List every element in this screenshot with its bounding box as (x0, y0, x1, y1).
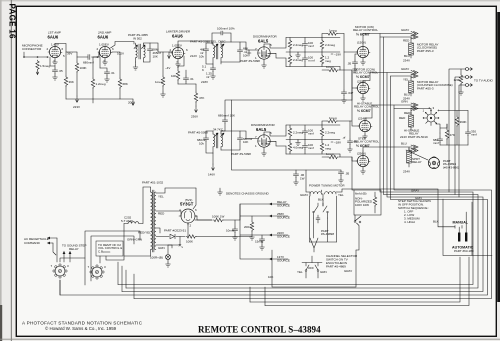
ladder1 mid ground (297, 52, 299, 53)
selenium rectifier diode (156, 236, 185, 238)
bypass cap on AVC line (338, 170, 343, 176)
svg-text:236V: 236V (191, 115, 198, 119)
svg-text:mmf: mmf (308, 44, 314, 48)
connector BLU stepper (410, 109, 412, 116)
svg-text:224V PART #S-5019: 224V PART #S-5019 (400, 135, 428, 139)
wire mid bus m3 (122, 73, 483, 292)
V2 plate wire to T1 (111, 42, 135, 49)
svg-text:5Y3GT: 5Y3GT (180, 202, 194, 207)
right binding bar (497, 12, 500, 302)
svg-text:.05: .05 (345, 172, 350, 176)
svg-text:212V: 212V (190, 54, 197, 58)
V5 outputs to ladder2 (264, 125, 286, 136)
source arrow RELAY SOURCE (272, 203, 288, 205)
T4 secondary top tap YEL (156, 188, 196, 193)
channel selector box (272, 250, 356, 287)
automatic box (443, 199, 492, 256)
svg-text:(224V): (224V) (358, 117, 367, 121)
svg-text:1.2meg: 1.2meg (96, 82, 106, 86)
svg-text:RED: RED (399, 116, 406, 120)
left page edge mark (0, 0, 2, 341)
V3 cathode cap .01 (183, 76, 188, 82)
motor winding right (325, 192, 336, 194)
svg-text:PART #S-5098: PART #S-5098 (188, 131, 208, 135)
wire ladder1 to V5 plate region (340, 70, 352, 100)
svg-text:GRN: GRN (320, 270, 327, 274)
V4 center tap down (263, 59, 265, 63)
svg-text:2.2meg: 2.2meg (293, 131, 303, 135)
120K resistor (460, 69, 462, 74)
svg-text:YEL: YEL (338, 193, 344, 197)
svg-text:BLK: BLK (433, 220, 439, 224)
pot wiper arrow (36, 71, 39, 75)
SPDT relay coil (407, 151, 412, 163)
long wire from socket area right (106, 224, 124, 261)
motor mech fork (310, 238, 318, 252)
svg-text:1meg: 1meg (326, 65, 334, 69)
svg-text:.01: .01 (190, 77, 195, 81)
svg-text:2.2meg: 2.2meg (293, 58, 303, 62)
svg-text:218V: 218V (201, 80, 208, 84)
T4 primary connections (150, 187, 152, 256)
TO REMT OF K2 text box (96, 241, 123, 256)
svg-text:2.2meg: 2.2meg (293, 43, 303, 47)
T1 secondary ground (135, 62, 137, 65)
motor cap (316, 215, 320, 223)
V3 cathode to ground (177, 59, 179, 62)
AC receptacle arrows (50, 237, 57, 239)
AVC return wire (232, 100, 342, 170)
svg-text:.047: .047 (348, 91, 354, 95)
svg-text:PART #S-5098: PART #S-5098 (240, 59, 260, 63)
wire mid bus m1 (118, 34, 473, 285)
V6 grid wire (344, 51, 357, 53)
svg-text:47K: 47K (450, 133, 455, 137)
svg-text:TO TV AUDIO: TO TV AUDIO (474, 79, 494, 83)
V2 grid resistor 1.2meg (93, 52, 99, 78)
screen resistor 39K (65, 52, 67, 76)
stepper circuit box wires (436, 111, 468, 146)
V3 load 47K (195, 84, 197, 92)
svg-text:COMMAND: COMMAND (24, 241, 41, 245)
ladder1 R 1.2meg right bottom (320, 55, 323, 65)
svg-text:(256V): (256V) (357, 152, 366, 156)
200K resistor supply (251, 216, 253, 221)
ladder2 R 4.7meg bottom (288, 142, 291, 152)
svg-text:100K: 100K (186, 240, 193, 244)
T2 left cap 680mmf (206, 43, 213, 47)
svg-text:(#7): (#7) (265, 54, 270, 58)
V7 grid wire (352, 70, 357, 100)
V8 grid wire (350, 100, 359, 126)
T3 tuning arrows (215, 133, 225, 137)
svg-text:PART #S-4869: PART #S-4869 (326, 265, 346, 269)
AC wires (53, 238, 57, 262)
svg-text:15mfd: 15mfd (255, 240, 264, 244)
svg-text:6mfd (B): 6mfd (B) (355, 192, 367, 196)
390K resistor (456, 111, 458, 117)
svg-text:PART #S-5098: PART #S-5098 (231, 152, 251, 156)
DENOTES CHASSIS GROUND legend (218, 190, 223, 195)
V8 cathode (364, 132, 366, 134)
svg-text:½ 6CM7: ½ 6CM7 (357, 109, 371, 113)
V3 plate to T2 (178, 41, 212, 45)
svg-text:SOURCE: SOURCE (277, 204, 290, 208)
B+ output rail with 100K 1W (195, 219, 212, 221)
svg-text:4.0meg: 4.0meg (293, 146, 303, 150)
svg-text:–19V: –19V (334, 53, 341, 57)
svg-text:47K: 47K (199, 96, 204, 100)
svg-text:SWITCH SEQUENCE :: SWITCH SEQUENCE : (398, 206, 429, 210)
svg-text:2.2meg: 2.2meg (325, 131, 335, 135)
svg-text:(#S-43-890): (#S-43-890) (443, 165, 459, 169)
V9 cathode (362, 167, 364, 169)
svg-text:IN 502: IN 502 (133, 37, 142, 41)
svg-text:K: K (202, 68, 204, 72)
svg-text:100R+(B): 100R+(B) (150, 256, 163, 260)
svg-text:mmf: mmf (433, 141, 439, 145)
svg-text:(#7): (#7) (265, 142, 270, 146)
svg-text:SEL. DISC: SEL. DISC (211, 40, 226, 44)
svg-text:YEL: YEL (158, 195, 164, 199)
svg-text:68K: 68K (123, 82, 128, 86)
1meg bottom wire ladder2 (322, 154, 352, 157)
volume pot 1.5meg (36, 60, 39, 70)
motor relay CCW coil (409, 81, 414, 93)
svg-text:RELAY: RELAY (412, 160, 422, 164)
svg-text:10K: 10K (153, 55, 158, 59)
svg-text:6AL5: 6AL5 (256, 127, 267, 132)
connector GRN (411, 103, 418, 107)
B+ distribution (240, 204, 269, 220)
V7 cathode ground (362, 94, 364, 96)
TO TV AUDIO jacks (466, 68, 473, 71)
page fold line (10, 0, 12, 341)
X node (179, 237, 181, 246)
svg-text:100mmf 10%: 100mmf 10% (217, 27, 235, 31)
hi-stable relay coil (409, 115, 414, 127)
svg-text:CONNECTOR: CONNECTOR (22, 47, 42, 51)
switch below box (355, 215, 361, 221)
plate load 100K (75, 62, 78, 72)
svg-text:1meg: 1meg (329, 116, 337, 120)
bottom page rule (0, 338, 500, 340)
svg-text:SOURCE: SOURCE (277, 216, 290, 220)
svg-text:146V: 146V (208, 173, 215, 177)
bottom bus extra lines (250, 257, 460, 302)
svg-text:BLU: BLU (401, 142, 407, 146)
connector BLK to SPDT (363, 147, 412, 151)
svg-text:680mmf: 680mmf (83, 61, 94, 65)
svg-text:GRAY: GRAY (401, 67, 409, 71)
socket2 feed wires (60, 252, 110, 263)
svg-text:GRAY: GRAY (300, 193, 308, 197)
automatic plug blades (458, 233, 460, 242)
svg-text:1W: 1W (300, 177, 305, 181)
stepper rotary switch (423, 106, 440, 126)
GRN tap ground (171, 245, 173, 248)
connector pair GRAY second (411, 71, 418, 75)
source arrow 137V SOURCE (272, 258, 288, 260)
motor winding left (310, 192, 321, 194)
connector pair GRAY top (411, 32, 418, 36)
svg-text:6AU6: 6AU6 (98, 35, 109, 40)
wire mid bus m5 (134, 105, 492, 299)
bottom bus left verticals (60, 262, 265, 306)
svg-text:.uf: .uf (342, 136, 346, 140)
pilot lamp (167, 245, 169, 255)
socket S2 (88, 265, 107, 279)
ladder1 R 2.2meg right top (320, 40, 323, 50)
tube V5 6AL5 (258, 135, 270, 147)
V1 cathode bypass cap .05 (49, 57, 51, 66)
V8 plate wire right (365, 105, 412, 120)
svg-text:YEL: YEL (297, 270, 303, 274)
svg-text:–18V: –18V (334, 141, 341, 145)
V2 cathode cap .01 (99, 57, 101, 68)
svg-text:100V 10W: 100V 10W (355, 203, 369, 207)
5Y3 output down (187, 223, 189, 237)
relay armature lever to motor (406, 150, 428, 160)
svg-text:SOURCE: SOURCE (277, 235, 290, 239)
primary bottom wire (124, 255, 151, 257)
svg-text:234V: 234V (403, 59, 410, 63)
ladder2 R 2.2meg right top (320, 127, 323, 137)
cap .047 to ground right (343, 34, 345, 91)
svg-text:100K 1W: 100K 1W (212, 215, 225, 219)
V9 plate wire (362, 151, 364, 155)
svg-text:(150V): (150V) (357, 41, 366, 45)
T3 bottom to supply arrow (212, 153, 214, 164)
svg-text:½ 6CM7: ½ 6CM7 (356, 75, 370, 79)
svg-text:1.5meg: 1.5meg (40, 64, 50, 68)
47K resistor (446, 124, 448, 129)
svg-text:OFF: OFF (308, 266, 314, 270)
motor terminal wires (321, 194, 323, 206)
6mfd cap box (354, 190, 381, 215)
node dot input (37, 56, 39, 58)
svg-text:GRN: GRN (401, 100, 408, 104)
svg-text:680mmf 10K: 680mmf 10K (218, 114, 235, 118)
1meg resistor top right h (327, 32, 337, 35)
svg-text:.05: .05 (59, 69, 64, 73)
manual wires down (443, 225, 462, 228)
svg-text:.01: .01 (111, 71, 116, 75)
svg-text:1meg: 1meg (155, 80, 163, 84)
T3 left cap 680mmf (206, 131, 213, 136)
15mfd cap supply (261, 235, 263, 237)
svg-text:PART #S5-3: PART #S5-3 (417, 86, 434, 90)
svg-text:BLK: BLK (318, 198, 324, 202)
ladder1 rails (286, 38, 340, 67)
transformer T1 (136, 45, 138, 58)
svg-text:39K: 39K (69, 80, 74, 84)
T4 tap GRN (156, 244, 172, 246)
T4 center tap RED/YEL (156, 228, 160, 233)
wire T1 to V3 grid (150, 43, 172, 52)
V3 grid resistor 1meg (162, 52, 164, 76)
svg-text:234V: 234V (403, 170, 410, 174)
motor internal switch contacts (314, 203, 319, 218)
svg-text:10K: 10K (171, 74, 176, 78)
svg-text:1.05EV: 1.05EV (99, 43, 109, 47)
V7 plate to connector (363, 73, 412, 83)
svg-text:6AU6: 6AU6 (172, 34, 183, 39)
ladder2 R 1.2meg right bottom (320, 142, 323, 152)
T3 right cap 680mmf (221, 131, 240, 136)
tube V1 6AU6 (48, 46, 62, 57)
tube V2 6AU6 (98, 46, 112, 57)
svg-text:PART #63-180: PART #63-180 (454, 249, 474, 253)
ladder2 cap 100mmf top (302, 129, 307, 135)
nested box outer (85, 231, 140, 285)
svg-text:GRN: GRN (158, 246, 165, 250)
supply caps with grounds top (295, 170, 297, 172)
svg-text:200m: 200m (244, 225, 252, 229)
svg-text:A PHOTOFACT STANDARD NOTATION: A PHOTOFACT STANDARD NOTATION SCHEMATIC (22, 321, 143, 326)
V9 grid wire (352, 157, 357, 161)
T2 right cap 68mmf (239, 42, 241, 48)
330mmf cap (467, 111, 469, 131)
CHANNEL SELECTOR switch (302, 263, 322, 267)
svg-text:GRAY: GRAY (401, 28, 409, 32)
svg-text:SOURCE: SOURCE (277, 259, 290, 263)
wire ladder2 to box (352, 157, 354, 190)
wire T2 top to V4 (221, 42, 258, 50)
5Y3 plate wires (181, 188, 197, 220)
ladder2 rails (286, 125, 340, 154)
svg-text:DENOTES CHASSIS GROUND: DENOTES CHASSIS GROUND (226, 192, 270, 196)
V2 screen resistor 68K (112, 52, 120, 78)
1meg top right ladder2 (327, 119, 337, 122)
up arrows (63, 254, 65, 262)
svg-text:1meg: 1meg (326, 152, 334, 156)
T1 tuning arrows (134, 45, 145, 49)
tube V3 6AU6 (171, 47, 185, 58)
svg-text:10k: 10k (199, 55, 204, 59)
source arrow 258V SOURCE (272, 215, 288, 217)
ladder2 R 2.2meg top (288, 127, 291, 137)
nested box inner (91, 236, 134, 281)
resistor in box (373, 196, 376, 206)
svg-text:PART #S5-3: PART #S5-3 (417, 49, 434, 53)
svg-text:meg: meg (325, 59, 331, 63)
T2 tuning arrows (215, 44, 225, 48)
svg-text:100K: 100K (80, 66, 87, 70)
svg-text:PART #51-1032: PART #51-1032 (142, 181, 164, 185)
wire mid bus m4 (60, 76, 488, 295)
svg-text:6AL5: 6AL5 (258, 39, 269, 44)
svg-text:mmf: mmf (471, 133, 477, 137)
V3 screen 10K (178, 45, 184, 71)
svg-text:mf: mf (206, 75, 209, 79)
svg-text:BLU: BLU (404, 54, 410, 58)
V1 plate wire (55, 44, 77, 53)
svg-text:.05: .05 (347, 62, 352, 66)
coupling cap 100mmf over T2 (212, 31, 231, 42)
svg-text:PART #CE23-51: PART #CE23-51 (164, 229, 186, 233)
svg-text:120K: 120K (454, 78, 461, 82)
svg-text:6AU6: 6AU6 (48, 35, 59, 40)
svg-text:RED: RED (403, 39, 410, 43)
motor YEL wire to bus (310, 189, 342, 196)
svg-text:m mf: m mf (308, 59, 315, 63)
svg-text:4. HIGH: 4. HIGH (404, 220, 415, 224)
svg-text:10K: 10K (243, 54, 248, 58)
svg-text:RED: RED (404, 111, 411, 115)
ladder2 cap 100mmf bottom (302, 144, 307, 150)
T4 tap RED to 5Y3 plate (156, 210, 181, 212)
svg-text:2.2meg: 2.2meg (325, 43, 335, 47)
wire hi-stable to stepper (411, 109, 431, 111)
transformer T2 (213, 45, 215, 58)
svg-text:mmf: mmf (308, 132, 314, 136)
wire input to V1 grid (24, 52, 49, 57)
V1 cathode ground (54, 58, 56, 60)
coupling cap 680mmf (77, 52, 99, 57)
svg-text:1.05EV: 1.05EV (172, 44, 182, 48)
svg-text:10K: 10K (243, 140, 248, 144)
connector RED (411, 35, 418, 39)
V6 plate to connector (363, 34, 412, 47)
GRAY wire from motor left (306, 170, 310, 192)
wire T3 to V5 (240, 131, 258, 139)
svg-text:REMOTE CONTROL S–43894: REMOTE CONTROL S–43894 (198, 325, 321, 335)
svg-text:1meg: 1meg (329, 29, 337, 33)
V4 output wires to ladder1 (264, 38, 286, 49)
svg-text:mmf: mmf (308, 146, 314, 150)
svg-text:10k: 10k (199, 142, 204, 146)
V4 left caps labels (247, 50, 251, 56)
V3 grid return -4V (169, 52, 172, 58)
transformer T3 (213, 134, 215, 147)
svg-text:PAGE 16: PAGE 16 (8, 4, 17, 40)
svg-text:© Howard W. Sams & Co., Inc. 1: © Howard W. Sams & Co., Inc. 1959 (45, 326, 117, 331)
svg-text:RELAY: RELAY (69, 247, 79, 251)
svg-text:390K: 390K (460, 120, 467, 124)
supply arrow 223V (76, 96, 79, 102)
680mmf cap (439, 133, 441, 137)
T1 right cap 465mmf (144, 43, 151, 47)
motor (428, 157, 439, 169)
svg-text:POWER TUNING MOTOR: POWER TUNING MOTOR (309, 184, 345, 188)
V5 center tap ground (263, 147, 265, 151)
V6 cathode cap and ground (362, 58, 364, 60)
ladder1 cap 100mmf top (302, 42, 307, 48)
power tuning motor box (310, 196, 337, 242)
ladder1 R 2.2meg bottom (288, 55, 291, 65)
motor box bottom wires (310, 218, 337, 242)
svg-text:YEL: YEL (403, 78, 409, 82)
page top edge (0, 0, 500, 1)
wire mid bus m2 (126, 37, 478, 288)
power transformer T4 (151, 190, 156, 252)
svg-text:223V: 223V (73, 105, 80, 109)
tube V4 6AL5 (258, 47, 270, 59)
ladder1 cap 100mmf bottom (302, 56, 307, 62)
svg-text:meg: meg (325, 147, 331, 151)
1meg bottom right (339, 67, 340, 71)
connector YEL (411, 74, 418, 78)
ladder1 R 2.2meg top (288, 40, 291, 50)
10mfd filter cap (234, 220, 236, 227)
rectifier tube 5Y3GT (179, 208, 197, 228)
svg-text:10mfd: 10mfd (226, 229, 235, 233)
ladder2 mid ground (297, 140, 299, 141)
motor relay CW coil (409, 43, 414, 55)
svg-text:–4V: –4V (165, 66, 170, 70)
socket S1 command (51, 264, 70, 278)
